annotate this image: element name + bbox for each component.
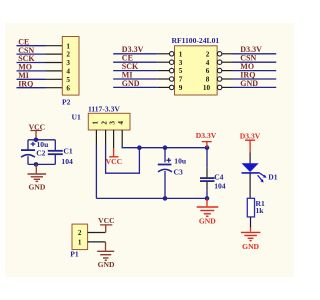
wire MO right: [233, 70, 277, 72]
pin U1-1: [95, 130, 97, 145]
svg-text:2: 2: [206, 50, 210, 58]
junction node: [34, 162, 39, 167]
svg-text:GND: GND: [28, 182, 45, 191]
svg-text:104: 104: [61, 157, 73, 166]
junction node: [34, 138, 39, 143]
wire GND rail: [96, 197, 207, 199]
wire MI: [17, 78, 46, 80]
svg-text:GND: GND: [98, 260, 115, 269]
wire D3.3V right: [233, 53, 277, 55]
wire below C1: [54, 154, 56, 164]
pin 4: [222, 61, 233, 63]
svg-text:5: 5: [179, 67, 183, 75]
svg-text:GND: GND: [199, 217, 216, 226]
pin P2-3: [46, 62, 63, 64]
junction node: [205, 196, 210, 201]
wire output rail pin4: [122, 145, 207, 148]
svg-text:GND: GND: [122, 79, 140, 88]
pin 1: [157, 53, 169, 55]
svg-text:1k: 1k: [256, 206, 265, 215]
LED D1: [242, 163, 259, 172]
pin P2-5: [46, 78, 63, 80]
capacitor C3: [158, 164, 172, 166]
wire LED to R1: [249, 172, 251, 198]
svg-text:P2: P2: [62, 97, 71, 106]
svg-text:C1: C1: [63, 146, 72, 155]
connector P2 body: [62, 37, 79, 96]
pin U1-4: [121, 130, 123, 145]
svg-text:5: 5: [66, 76, 70, 84]
svg-text:C2: C2: [36, 148, 45, 157]
pin U1-3: [113, 130, 115, 148]
pin U1-2: [105, 130, 107, 145]
pin 9: [157, 86, 169, 88]
wire GND left: [113, 86, 157, 88]
pin 8: [222, 78, 233, 80]
wire IRQ: [17, 87, 46, 89]
ground GND at P1: [105, 242, 107, 251]
junction node: [163, 196, 168, 201]
pin 2: [222, 53, 233, 55]
junction node: [137, 145, 142, 150]
svg-text:8: 8: [206, 76, 210, 84]
resistor R1: [247, 198, 254, 217]
svg-text:3: 3: [179, 59, 183, 67]
svg-text:D1: D1: [268, 173, 277, 182]
svg-text:GND: GND: [242, 242, 259, 251]
svg-text:VCC: VCC: [106, 157, 122, 166]
wire top: [28, 139, 55, 141]
svg-text:RF1100-24L01: RF1100-24L01: [172, 36, 220, 45]
ground GND: [35, 164, 37, 173]
svg-text:U1: U1: [72, 113, 81, 122]
wire to LED: [249, 153, 251, 164]
ground GND mid: [206, 198, 208, 206]
svg-text:104: 104: [214, 182, 226, 191]
capacitor C4: [200, 177, 215, 179]
wire SCK: [17, 62, 46, 64]
svg-text:9: 9: [179, 84, 183, 92]
wire output detour pin2: [106, 145, 140, 173]
wire R1 to GND: [250, 217, 252, 228]
svg-text:2: 2: [78, 229, 82, 237]
wire above C3: [164, 148, 166, 163]
svg-text:D3.3V: D3.3V: [240, 131, 261, 140]
svg-text:2: 2: [101, 121, 109, 125]
pin P1-1: [88, 241, 106, 243]
svg-text:1: 1: [66, 42, 70, 50]
capacitor C1: [48, 150, 63, 152]
svg-text:10: 10: [203, 84, 211, 92]
junction node: [205, 145, 210, 150]
svg-text:7: 7: [179, 76, 183, 84]
wire CE left: [113, 61, 157, 63]
svg-text:C3: C3: [174, 167, 183, 176]
svg-text:1: 1: [91, 121, 99, 125]
pin 3: [157, 61, 169, 63]
pin 10: [222, 86, 233, 88]
pin P2-2: [46, 53, 63, 55]
wire SCK left: [113, 70, 157, 72]
pin 6: [222, 70, 233, 72]
svg-text:1: 1: [179, 50, 183, 58]
wire above C4: [206, 148, 208, 168]
wire GND from pin1: [95, 145, 97, 198]
svg-text:1: 1: [78, 239, 82, 247]
svg-text:4: 4: [206, 59, 210, 67]
pin 7: [157, 78, 169, 80]
svg-text:6: 6: [206, 67, 210, 75]
connector P1 body: [72, 224, 88, 250]
svg-text:VCC: VCC: [98, 216, 114, 225]
svg-text:GND: GND: [240, 79, 258, 88]
wire CE: [17, 45, 46, 47]
wire below C3: [164, 171, 166, 198]
svg-text:6: 6: [66, 84, 70, 92]
junction node: [163, 145, 168, 150]
module U body: [175, 46, 218, 95]
wire CSN right: [233, 61, 277, 63]
pin P2-1: [46, 45, 63, 47]
wire D3.3V left: [113, 53, 157, 55]
wire below C4: [206, 190, 208, 198]
pin C4 bottom: [206, 182, 208, 191]
svg-text:3: 3: [109, 121, 117, 125]
pin C4 top: [206, 167, 208, 177]
svg-text:4: 4: [66, 68, 70, 76]
wire right branch: [54, 140, 56, 151]
svg-text:4: 4: [117, 121, 125, 125]
ground GND right: [250, 228, 252, 232]
pin P2-6: [46, 87, 63, 89]
capacitor C2: [21, 149, 35, 151]
wire IRQ right: [233, 78, 277, 80]
wire bottom: [28, 163, 55, 165]
svg-text:10u: 10u: [174, 157, 187, 166]
wire GND right: [233, 86, 277, 88]
wire below C2: [27, 156, 29, 164]
regulator U1 body: [88, 113, 130, 130]
wire CSN: [17, 53, 46, 55]
svg-text:2: 2: [66, 51, 70, 59]
wire left branch: [27, 140, 29, 150]
svg-text:P1: P1: [70, 250, 79, 259]
pin P1-2: [88, 232, 106, 234]
power port VCC at U1: [109, 148, 118, 157]
wire MI left: [113, 78, 157, 80]
svg-text:C4: C4: [214, 173, 223, 182]
pin P2-4: [46, 70, 63, 72]
pin 5: [157, 70, 169, 72]
svg-text:1117-3.3V: 1117-3.3V: [88, 104, 120, 113]
wire MO: [17, 70, 46, 72]
svg-text:D3.3V: D3.3V: [196, 131, 217, 140]
svg-text:3: 3: [66, 59, 70, 67]
